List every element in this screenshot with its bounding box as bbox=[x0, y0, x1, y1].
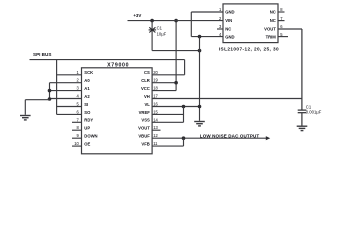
svg-text:VL: VL bbox=[144, 102, 150, 107]
svg-text:VCC: VCC bbox=[141, 86, 150, 91]
wire U2 pin4 GND lead bbox=[191, 36, 223, 38]
svg-text:17: 17 bbox=[153, 94, 158, 99]
svg-text:GND: GND bbox=[225, 34, 234, 39]
svg-text:20: 20 bbox=[153, 70, 158, 75]
wire reference VOUT drop bbox=[301, 29, 303, 110]
U2 left pin numbers bbox=[219, 7, 222, 37]
svg-text:11: 11 bbox=[153, 141, 158, 146]
node junction GND pins bbox=[198, 35, 202, 39]
svg-text:OE: OE bbox=[84, 142, 90, 147]
node junction VL to VREF/VSS bbox=[182, 105, 186, 109]
svg-text:SPI BUS: SPI BUS bbox=[33, 52, 51, 57]
node junction VBUF to VFB bbox=[182, 136, 186, 140]
wire pin10 OE stub bbox=[72, 145, 82, 147]
wire U2 pin7 NC stub bbox=[278, 20, 285, 22]
output arrowhead bbox=[266, 136, 270, 140]
svg-text:14: 14 bbox=[153, 117, 158, 122]
wire U2 pin5 TRIM stub bbox=[278, 36, 288, 38]
wire +3V rail bbox=[128, 20, 224, 22]
IC U1 X79000 digitally controlled potentiometer body bbox=[82, 68, 153, 154]
ground middle bbox=[194, 122, 205, 126]
svg-text:RDY: RDY bbox=[84, 118, 93, 123]
wire pin5 SI lead bbox=[57, 106, 82, 108]
node junction CLR bbox=[174, 81, 178, 85]
wire pin6 SO lead bbox=[57, 113, 82, 115]
svg-text:VH: VH bbox=[144, 94, 150, 99]
wire pin19 CLR lead bbox=[152, 82, 176, 84]
svg-text:10µF: 10µF bbox=[157, 31, 167, 36]
svg-text:NC: NC bbox=[225, 27, 231, 32]
U2 left pin labels bbox=[225, 10, 234, 40]
capacitor C1 0.001uF bbox=[298, 110, 307, 113]
wire U2 GND1 to GND4 vertical bbox=[190, 12, 192, 37]
wire SPI bus vertical drop bbox=[56, 60, 58, 115]
svg-text:C1: C1 bbox=[157, 25, 163, 30]
wire U2 pin8 NC stub bbox=[278, 11, 285, 13]
svg-text:SCK: SCK bbox=[84, 70, 93, 75]
wire U2 pin3 NC stub bbox=[217, 28, 223, 30]
wire pin2 A0 lead bbox=[50, 82, 82, 84]
node junction C1 tap bbox=[150, 19, 154, 23]
svg-text:16: 16 bbox=[153, 102, 158, 107]
svg-text:CS: CS bbox=[144, 70, 150, 75]
svg-text:A0: A0 bbox=[84, 78, 90, 83]
U2 right pin numbers bbox=[280, 7, 283, 37]
svg-text:SO: SO bbox=[84, 110, 91, 115]
U1 left pin numbers 1-10 bbox=[74, 70, 79, 146]
wire A0-A1-A2 tie vertical bbox=[49, 83, 51, 100]
ground left bbox=[20, 116, 31, 120]
wire pin9 DOWN stub bbox=[72, 137, 82, 139]
wire CS loop vertical bbox=[184, 60, 186, 75]
wire SPI bus horizontal to CS loop bbox=[30, 59, 185, 61]
ground right bbox=[297, 126, 308, 130]
svg-text:VOUT: VOUT bbox=[264, 27, 276, 32]
wire cap to ground bbox=[301, 113, 303, 126]
wire ground net vertical bbox=[199, 37, 201, 121]
svg-text:10: 10 bbox=[74, 141, 79, 146]
svg-text:12: 12 bbox=[153, 133, 158, 138]
svg-text:NC: NC bbox=[270, 18, 276, 23]
svg-text:LOW NOISE DAC OUTPUT: LOW NOISE DAC OUTPUT bbox=[200, 133, 260, 138]
node junction cap return bbox=[198, 49, 202, 53]
svg-text:DOWN: DOWN bbox=[84, 134, 97, 139]
wire address ground drop bbox=[24, 100, 26, 115]
node junction +3V rail tap bbox=[174, 19, 178, 23]
IC U2 ISL21007 voltage reference body bbox=[223, 4, 278, 43]
wire +3V drop to VCC bbox=[175, 21, 177, 91]
U1 left pin labels bbox=[84, 70, 97, 146]
wire pin11 VFB lead bbox=[152, 145, 183, 147]
node junction A2 bbox=[48, 97, 52, 101]
wire U2 pin6 VOUT lead bbox=[278, 28, 302, 30]
wire address ground line bbox=[25, 99, 49, 101]
svg-text:+3V: +3V bbox=[133, 13, 141, 18]
wire pin7 RDY stub bbox=[72, 121, 82, 123]
node junction A1 bbox=[48, 89, 52, 93]
wire pin15 VREF lead bbox=[152, 113, 183, 115]
wire C1 return line to ground net bbox=[152, 50, 199, 52]
svg-text:A2: A2 bbox=[84, 94, 90, 99]
U1 right pin numbers 20-11 bbox=[153, 70, 158, 146]
svg-text:TRIM: TRIM bbox=[266, 34, 277, 39]
svg-text:VSS: VSS bbox=[141, 118, 150, 123]
wire pin1 SCK lead bbox=[57, 74, 82, 76]
svg-text:15: 15 bbox=[153, 109, 158, 114]
wire pin12 VBUF output line bbox=[152, 137, 266, 139]
wire pin13 VOUT stub bbox=[152, 129, 160, 131]
wire pin18 VCC lead bbox=[152, 90, 176, 92]
wire VREF VSS tie vertical bbox=[183, 107, 185, 123]
svg-text:18: 18 bbox=[153, 86, 158, 91]
U2 right pin labels bbox=[264, 10, 276, 40]
svg-text:SI: SI bbox=[84, 102, 88, 107]
wire pin8 UP stub bbox=[72, 129, 82, 131]
svg-text:NC: NC bbox=[270, 10, 276, 15]
wire pin3 A1 lead bbox=[50, 90, 82, 92]
svg-text:VREF: VREF bbox=[139, 110, 151, 115]
svg-text:A1: A1 bbox=[84, 86, 90, 91]
svg-text:CLR: CLR bbox=[141, 78, 150, 83]
svg-text:VOUT: VOUT bbox=[138, 126, 150, 131]
wire pin20 CS lead bbox=[152, 74, 185, 76]
U1 right pin labels bbox=[138, 70, 150, 146]
wire pin17 VH reference line bbox=[152, 98, 302, 100]
wire VFB tie vertical bbox=[183, 138, 185, 146]
svg-text:VIN: VIN bbox=[225, 18, 232, 23]
wire C1 cap branch vertical bbox=[151, 21, 153, 51]
wire pin4 A2 lead bbox=[50, 98, 82, 100]
svg-text:X79000: X79000 bbox=[107, 62, 129, 68]
svg-text:UP: UP bbox=[84, 126, 90, 131]
capacitor C1 10uF symbol bbox=[149, 27, 157, 32]
svg-text:ISL21007-12, 20, 25, 30: ISL21007-12, 20, 25, 30 bbox=[219, 46, 279, 51]
svg-text:19: 19 bbox=[153, 78, 158, 83]
wire pin16 VL lead bbox=[152, 106, 199, 108]
svg-text:GND: GND bbox=[225, 10, 234, 15]
svg-text:VBUF: VBUF bbox=[138, 134, 150, 139]
svg-text:13: 13 bbox=[153, 125, 158, 130]
wire U2 pin1 GND lead bbox=[191, 11, 223, 13]
wire pin14 VSS lead bbox=[152, 121, 183, 123]
node junction VL to ground net bbox=[198, 105, 202, 109]
svg-text:VFB: VFB bbox=[141, 142, 149, 147]
svg-text:0.001µF: 0.001µF bbox=[306, 110, 322, 115]
